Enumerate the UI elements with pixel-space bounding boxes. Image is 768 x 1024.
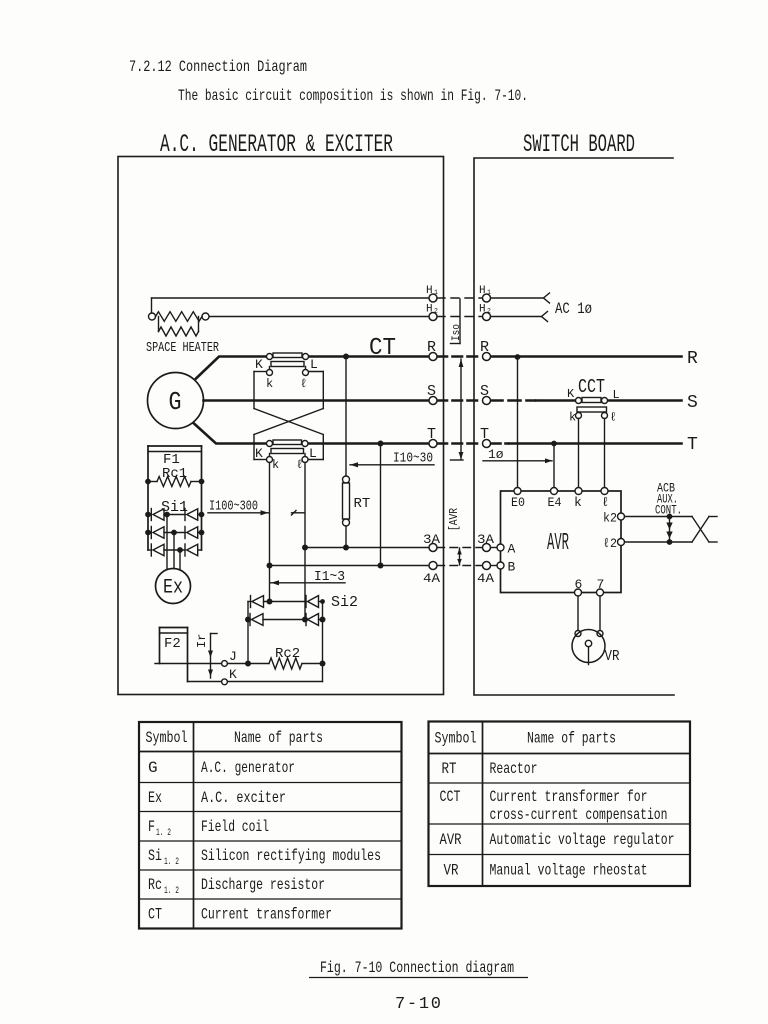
svg-text:J: J xyxy=(229,649,237,664)
svg-text:3A: 3A xyxy=(423,532,440,547)
wire exciter leads xyxy=(167,515,180,571)
wire CT cross connection xyxy=(254,372,323,460)
svg-text:S: S xyxy=(687,393,698,413)
svg-text:1. 2: 1. 2 xyxy=(156,828,171,839)
terminal 4A right xyxy=(477,562,494,587)
connector arrow AC line H1 xyxy=(544,293,550,303)
svg-text:Fig. 7-10 Connection diagram: Fig. 7-10 Connection diagram xyxy=(320,959,514,977)
svg-text:K: K xyxy=(255,446,263,461)
silicon rectifier Si1 row 1 xyxy=(145,509,204,521)
wire H1 line xyxy=(152,298,544,313)
wire VR lead 6 xyxy=(577,596,579,631)
pin k2 xyxy=(603,511,625,526)
svg-text:R: R xyxy=(480,339,489,356)
wire H2 line xyxy=(209,316,542,318)
svg-text:K: K xyxy=(255,357,263,372)
svg-text:H₂: H₂ xyxy=(479,304,492,316)
bracket AVR between boxes xyxy=(448,508,462,565)
label 1-phase annotation xyxy=(483,447,553,463)
svg-text:k2: k2 xyxy=(603,511,617,526)
svg-text:ℓ2: ℓ2 xyxy=(603,536,617,551)
svg-text:Field coil: Field coil xyxy=(201,818,269,836)
svg-text:SWITCH BOARD: SWITCH BOARD xyxy=(523,130,635,159)
pin 7 xyxy=(597,577,605,596)
terminal H2 left xyxy=(426,304,439,321)
svg-text:A.C. GENERATOR & EXCITER: A.C. GENERATOR & EXCITER xyxy=(160,130,393,159)
wire 3A line xyxy=(302,545,497,551)
svg-text:L: L xyxy=(613,388,620,402)
svg-text:Silicon rectifying modules: Silicon rectifying modules xyxy=(201,847,381,865)
svg-text:7: 7 xyxy=(597,577,605,592)
svg-text:E4: E4 xyxy=(548,495,562,510)
reactor RT xyxy=(343,354,371,548)
svg-text:Name of parts: Name of parts xyxy=(234,729,323,747)
svg-text:AVR: AVR xyxy=(440,831,462,849)
svg-text:A: A xyxy=(508,542,516,557)
exciter Ex xyxy=(156,569,191,604)
svg-text:6: 6 xyxy=(575,577,583,592)
svg-text:T: T xyxy=(427,426,436,443)
wire E4 drop from T xyxy=(551,441,557,488)
current transformer CCT xyxy=(567,376,620,425)
svg-text:L: L xyxy=(309,446,317,461)
wire T phase left xyxy=(194,424,682,444)
svg-text:RT: RT xyxy=(442,760,457,778)
discharge resistor Rc2 xyxy=(269,646,326,669)
svg-text:F: F xyxy=(148,818,155,836)
svg-text:Discharge resistor: Discharge resistor xyxy=(201,876,325,894)
svg-text:1ø: 1ø xyxy=(488,447,504,462)
wire R phase left xyxy=(196,357,682,379)
svg-text:ℓ: ℓ xyxy=(602,495,610,510)
wire Si2 left rail xyxy=(247,602,249,664)
svg-text:K: K xyxy=(229,667,237,682)
svg-text:cross-current compensation: cross-current compensation xyxy=(490,806,668,824)
label I1~3 annotation xyxy=(271,569,346,585)
svg-text:ℓ: ℓ xyxy=(300,377,307,391)
wire CT secondary right drop xyxy=(304,463,306,620)
switch board enclosure (open right) xyxy=(474,158,674,695)
svg-text:B: B xyxy=(508,560,516,575)
table right parts list xyxy=(429,722,691,887)
svg-text:H₁: H₁ xyxy=(479,285,492,297)
svg-text:Name of parts: Name of parts xyxy=(527,730,616,748)
automatic voltage regulator AVR box xyxy=(501,491,622,593)
pin B xyxy=(497,560,516,575)
svg-text:Automatic voltage regulator: Automatic voltage regulator xyxy=(490,831,675,849)
terminal R right xyxy=(480,339,491,361)
wire l2 lead xyxy=(625,541,693,543)
svg-text:G: G xyxy=(148,759,158,777)
terminal S right xyxy=(480,383,491,405)
wire VR lead 7 xyxy=(599,596,601,631)
pin K xyxy=(574,488,582,511)
svg-text:CCT: CCT xyxy=(440,788,461,806)
wire k2 lead xyxy=(625,516,693,518)
pin E4 xyxy=(548,488,562,511)
svg-text:Ir: Ir xyxy=(195,634,209,648)
terminal 4A left xyxy=(423,562,440,587)
current transformer CT upper on R xyxy=(255,353,318,391)
wire E0 drop from R xyxy=(515,354,521,487)
svg-text:Current transformer: Current transformer xyxy=(201,906,332,924)
wire CT secondary left drop xyxy=(269,463,271,602)
svg-text:Si: Si xyxy=(148,847,162,865)
svg-text:CT: CT xyxy=(148,906,162,924)
svg-text:H₁: H₁ xyxy=(426,285,439,297)
silicon rectifier Si2 row 1 xyxy=(248,596,325,608)
pin l2 xyxy=(603,536,625,551)
svg-text:L: L xyxy=(310,357,318,372)
pin 6 xyxy=(575,577,583,596)
pin E0 xyxy=(511,488,525,511)
svg-text:k: k xyxy=(569,411,576,425)
silicon rectifier Si2 row 2 xyxy=(245,614,326,626)
terminal H1 left xyxy=(426,285,439,302)
svg-text:Reactor: Reactor xyxy=(490,760,538,778)
svg-text:Manual voltage rheostat: Manual voltage rheostat xyxy=(490,862,648,880)
svg-text:The basic circuit composition: The basic circuit composition is shown i… xyxy=(178,87,528,105)
svg-text:A.C. exciter: A.C. exciter xyxy=(201,789,286,807)
caption Fig. 7-10 xyxy=(309,959,528,978)
svg-text:[AVR: [AVR xyxy=(448,508,461,531)
svg-text:F2: F2 xyxy=(164,636,181,652)
svg-text:A.C. generator: A.C. generator xyxy=(201,759,295,777)
svg-text:K: K xyxy=(567,387,575,401)
svg-text:Current transformer for: Current transformer for xyxy=(490,788,648,806)
svg-text:Ex: Ex xyxy=(163,577,183,600)
pin l xyxy=(601,488,609,511)
svg-text:ℓ: ℓ xyxy=(610,411,617,425)
svg-text:G: G xyxy=(169,387,182,417)
svg-text:k: k xyxy=(272,458,279,472)
terminal S left xyxy=(427,383,437,405)
field coil F1 xyxy=(148,446,202,550)
svg-text:Symbol: Symbol xyxy=(146,729,188,747)
label I10~30 annotation xyxy=(350,451,434,468)
terminal 3A left xyxy=(423,532,440,552)
svg-text:7-10: 7-10 xyxy=(395,995,441,1014)
svg-text:CCT: CCT xyxy=(578,376,605,398)
current transformer CT lower on T xyxy=(255,440,317,472)
svg-text:3A: 3A xyxy=(477,532,494,547)
wire Si2 right rail xyxy=(322,602,324,682)
wire CCT k to AVR xyxy=(578,419,580,488)
label Ir annotation xyxy=(195,634,217,679)
space heater resistors xyxy=(149,312,210,336)
svg-text:R: R xyxy=(427,339,436,356)
wire 4A line xyxy=(267,563,498,569)
svg-text:Rc: Rc xyxy=(148,876,162,894)
svg-text:SPACE HEATER: SPACE HEATER xyxy=(146,340,219,356)
connector arrow AC line H2 xyxy=(542,312,548,322)
wire transposition crossover xyxy=(692,517,717,543)
table left parts list xyxy=(139,722,402,929)
pin A xyxy=(497,542,516,557)
svg-text:S: S xyxy=(427,383,436,400)
terminal H1 right xyxy=(479,285,492,302)
terminal 3A right xyxy=(477,532,494,552)
svg-text:T: T xyxy=(480,426,489,443)
wire T to 4A drop xyxy=(378,441,384,566)
svg-text:AC 1ø: AC 1ø xyxy=(555,300,592,318)
rheostat VR xyxy=(572,630,620,666)
terminal R left xyxy=(427,339,437,361)
svg-text:VR: VR xyxy=(605,648,620,665)
terminal H2 right xyxy=(479,304,492,321)
svg-text:VR: VR xyxy=(444,862,459,880)
discharge resistor Rc1 xyxy=(145,466,204,487)
label ACB AUX CONT xyxy=(655,482,682,518)
wire S phase left xyxy=(204,399,682,402)
svg-text:k: k xyxy=(266,377,273,391)
svg-text:CT: CT xyxy=(369,335,396,362)
generator &amp; exciter enclosure box xyxy=(118,157,444,695)
svg-text:Si2: Si2 xyxy=(331,594,358,611)
contact J xyxy=(155,649,269,667)
svg-text:Iso: Iso xyxy=(451,324,463,341)
svg-text:4A: 4A xyxy=(423,571,440,586)
svg-text:ℓ: ℓ xyxy=(296,458,303,472)
field coil F2 xyxy=(160,628,188,682)
terminal T right xyxy=(480,426,491,448)
svg-text:1. 2: 1. 2 xyxy=(164,857,179,868)
svg-text:Symbol: Symbol xyxy=(435,730,477,748)
bracket Iso between boxes xyxy=(451,299,464,344)
terminal T left xyxy=(427,426,437,448)
svg-text:H₂: H₂ xyxy=(426,304,439,316)
generator G xyxy=(148,373,204,429)
svg-text:k: k xyxy=(574,495,582,510)
svg-text:T: T xyxy=(687,435,698,455)
svg-text:AVR: AVR xyxy=(547,530,569,557)
contact ACB auxiliary xyxy=(666,514,672,545)
svg-text:R: R xyxy=(687,349,698,369)
svg-text:1. 2: 1. 2 xyxy=(164,886,179,897)
svg-text:S: S xyxy=(480,383,489,400)
silicon rectifier Si1 row 2 xyxy=(145,527,204,539)
svg-text:E0: E0 xyxy=(511,495,525,510)
svg-text:Ex: Ex xyxy=(148,789,162,807)
svg-text:7.2.12 Connection Diagram: 7.2.12 Connection Diagram xyxy=(129,58,307,76)
svg-text:4A: 4A xyxy=(477,571,494,586)
dimension arrow R to T xyxy=(451,359,464,460)
contact K xyxy=(188,667,323,685)
svg-text:RT: RT xyxy=(354,496,371,512)
wire CCT l to AVR xyxy=(604,419,606,488)
label I100~300 annotation xyxy=(208,499,304,516)
silicon rectifier Si1 row 3 xyxy=(148,544,202,556)
